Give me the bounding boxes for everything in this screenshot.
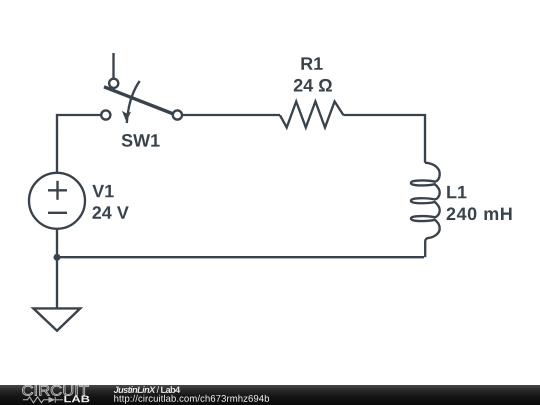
- switch SW1 top terminal circle: [109, 79, 118, 88]
- wire: top left horizontal: [57, 115, 101, 173]
- footer text: user / project: [114, 386, 180, 393]
- node: junction dot at V1 bottom: [54, 254, 61, 261]
- inductor L1 coil: [411, 163, 440, 242]
- voltage source V1 plus sign: [48, 189, 67, 191]
- wire: inductor bottom to corner: [424, 241, 426, 257]
- label R1: [301, 57, 322, 69]
- resistor R1 zigzag: [280, 102, 344, 128]
- switch SW1 left terminal circle: [101, 110, 110, 119]
- footer bar: [0, 385, 540, 405]
- voltage source V1 circle: [29, 173, 85, 229]
- switch SW1 actuation arrow arc: [127, 81, 140, 123]
- wire: switch right circle to resistor: [183, 114, 281, 116]
- ground symbol: [33, 308, 80, 330]
- switch SW1 right terminal circle: [173, 110, 182, 119]
- wire: V1 bottom to junction: [56, 229, 58, 257]
- voltage source V1 minus sign: [48, 212, 67, 214]
- CircuitLab logo wordmark LAB: [64, 396, 89, 403]
- footer text: url: [114, 395, 269, 404]
- label V1 value 24 V: [92, 206, 128, 219]
- label L1: [447, 186, 466, 198]
- CircuitLab logo resistor-diode squiggle: [23, 397, 63, 403]
- label L1 value 240 mH: [447, 207, 512, 220]
- label V1: [92, 185, 113, 197]
- label SW1: [122, 134, 160, 147]
- wire: switch top stub: [112, 53, 114, 79]
- label R1 value 24 ohm: [294, 79, 332, 92]
- switch SW1 blade: [104, 87, 174, 114]
- switch SW1 actuation arrow head: [122, 111, 131, 122]
- CircuitLab logo wordmark CIRCUIT: [22, 385, 88, 395]
- wire: resistor to top right corner and down: [344, 115, 426, 163]
- wire: bottom horizontal: [57, 256, 424, 258]
- wire: junction to ground: [56, 257, 58, 308]
